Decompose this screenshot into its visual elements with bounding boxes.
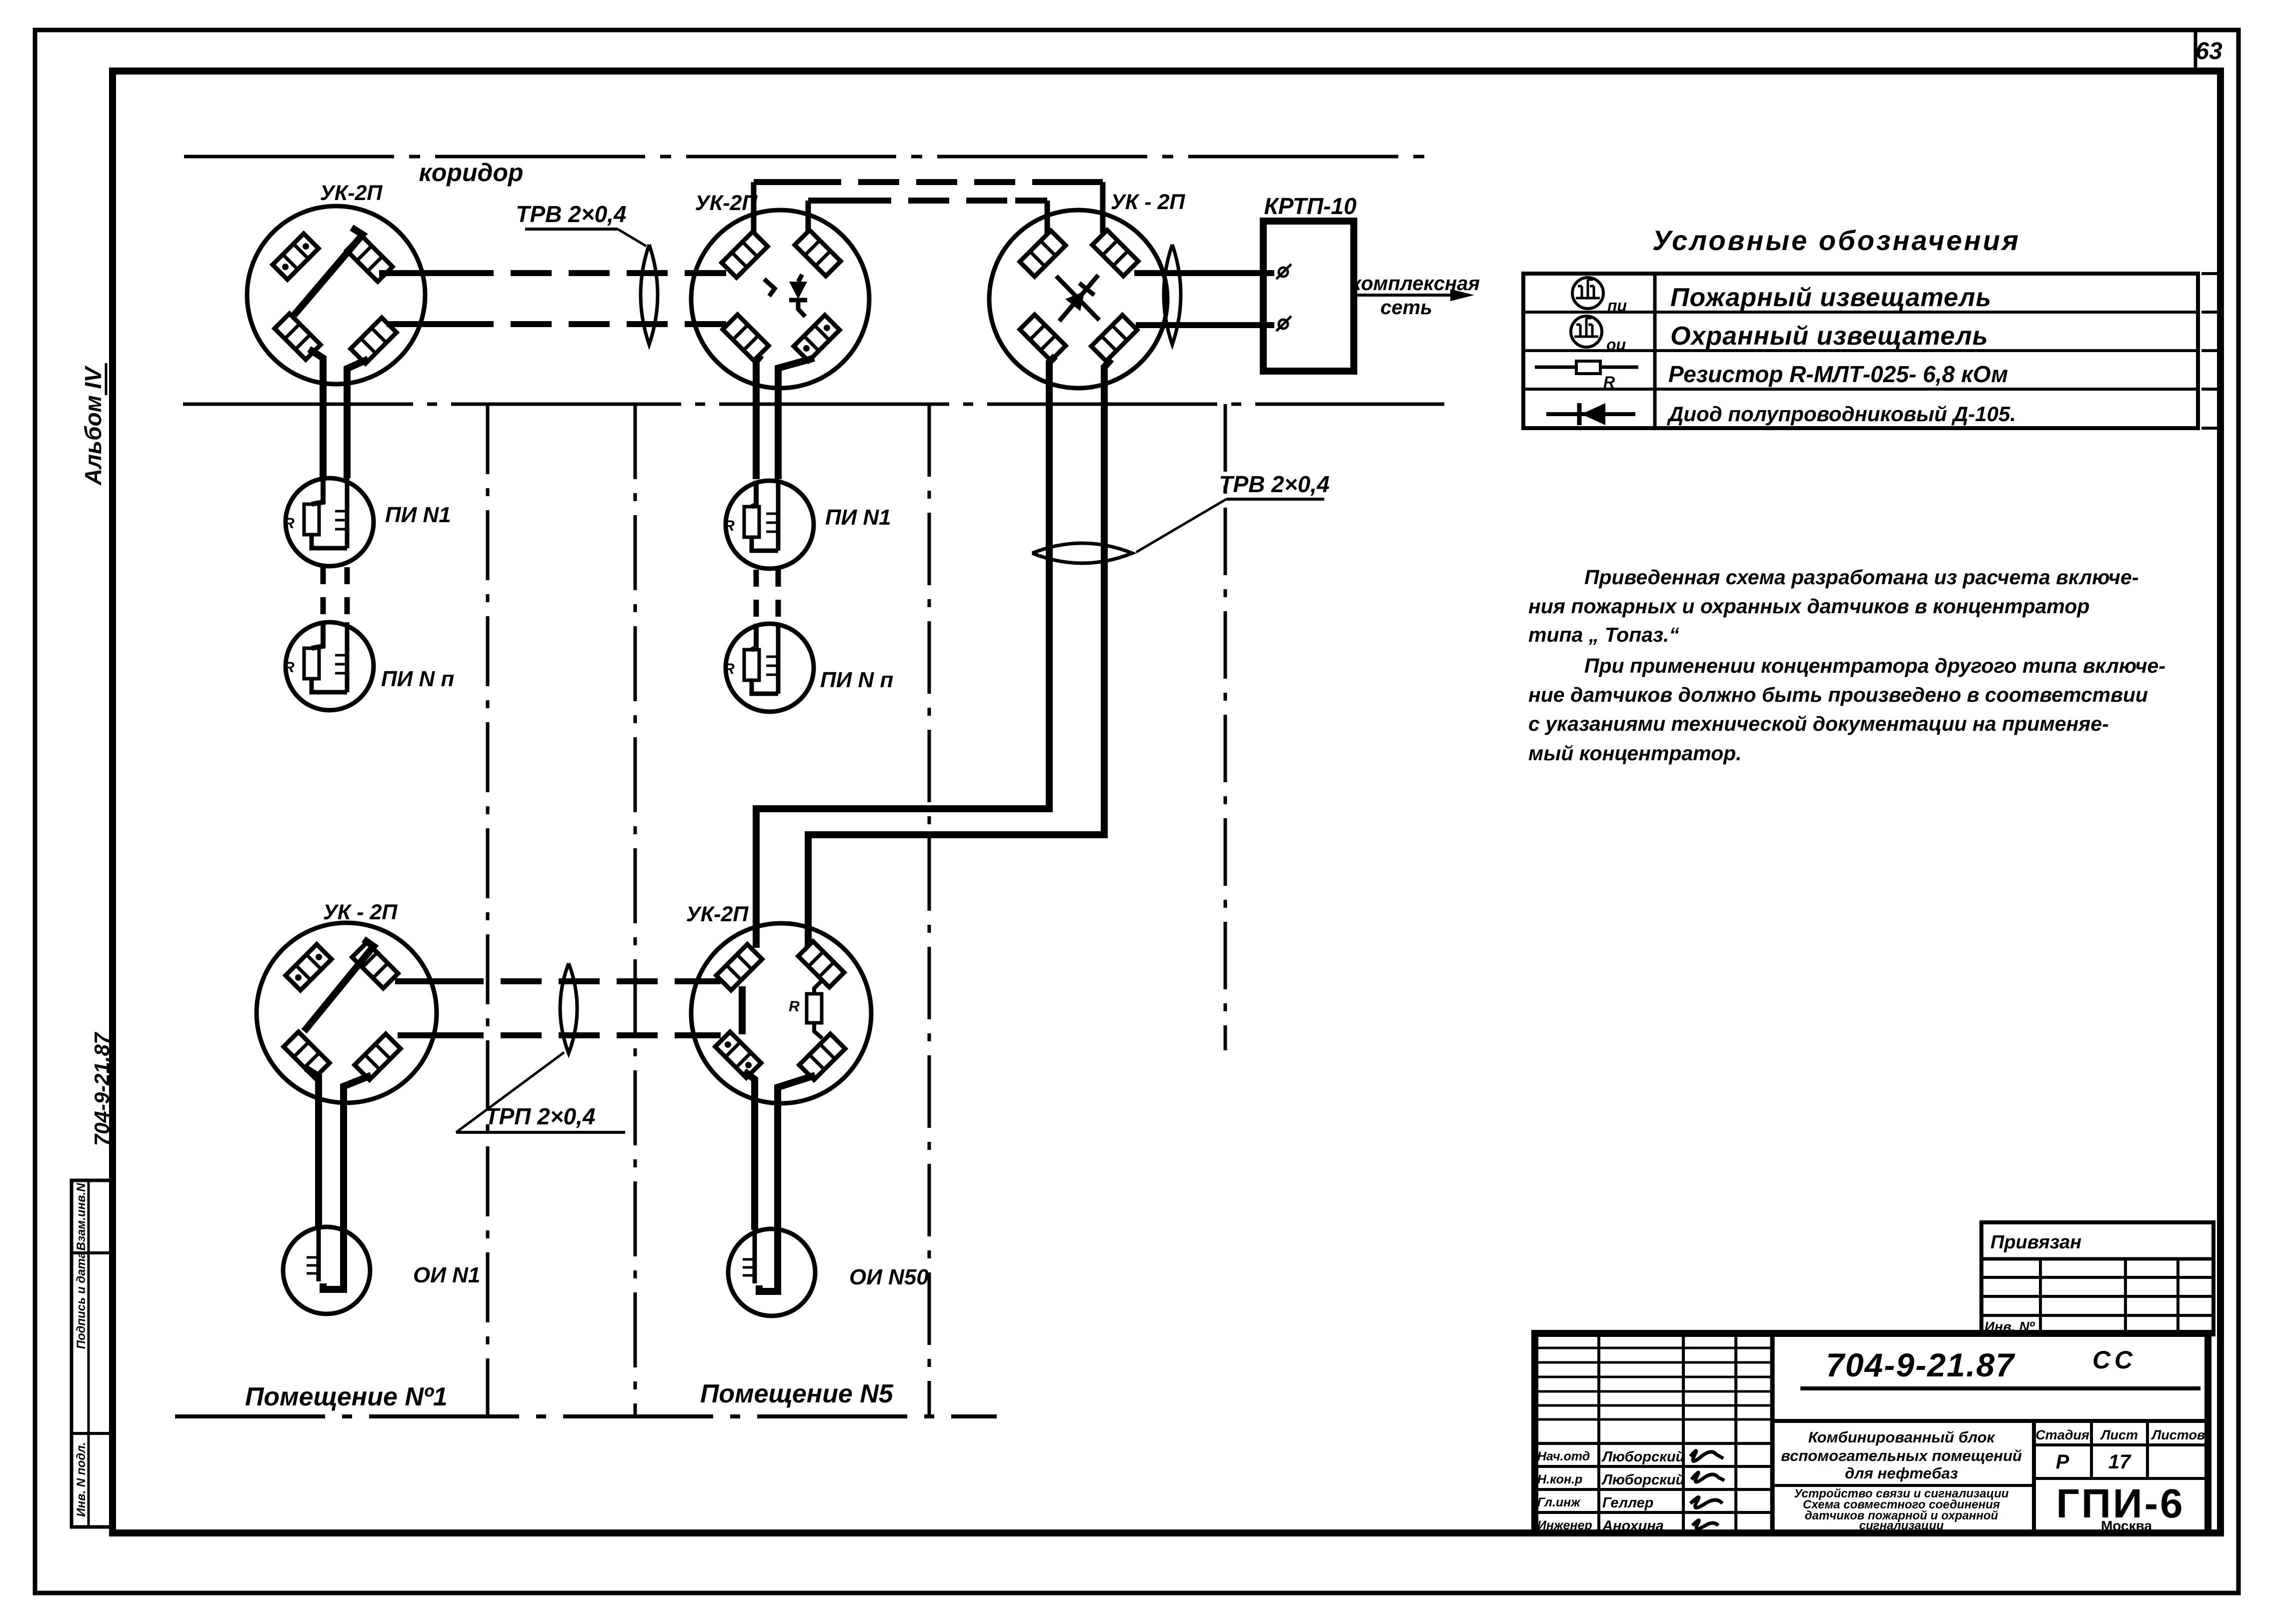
- cable lens marker 4 on riser: [1032, 543, 1132, 563]
- UK-2P no.1 internal jumper wire: [294, 228, 363, 315]
- svg-text:Нач.отд: Нач.отд: [1537, 1449, 1590, 1463]
- svg-text:R: R: [789, 998, 800, 1015]
- legend symbol: diode: [1546, 403, 1635, 425]
- junction box UK-2P no.5: [691, 923, 871, 1103]
- UK-2P no.5 terminal blocks: [715, 941, 845, 1080]
- junction box UK-2P no.2: [691, 210, 869, 388]
- stage sheet columns: [2034, 1421, 2208, 1533]
- dashed pair run UK2 to UK3 lower: [808, 198, 1047, 204]
- svg-text:ПИ N п: ПИ N п: [820, 668, 894, 692]
- wire run UK3 to KRTP lower: [1136, 322, 1274, 328]
- UK-2P no.4 internal jumper wire: [304, 939, 374, 1031]
- junction box UK-2P no.1: [247, 206, 425, 384]
- svg-text:ОИ N50: ОИ N50: [849, 1265, 929, 1289]
- svg-text:Подпись и дата: Подпись и дата: [75, 1252, 88, 1349]
- cable label TRV 2x0.4 no.2: [1136, 471, 1330, 552]
- svg-text:Взам.инв.N: Взам.инв.N: [75, 1183, 88, 1251]
- wire from UK-2P no.1 to PI column right: [347, 359, 368, 478]
- binding table Privyazan: [1981, 1222, 2213, 1334]
- svg-text:типа „ Топаз.“: типа „ Топаз.“: [1528, 623, 1679, 646]
- svg-text:для нефтебаз: для нефтебаз: [1845, 1464, 1958, 1482]
- svg-text:R: R: [724, 518, 735, 534]
- signatures squiggles: [1690, 1450, 1724, 1528]
- room label 1: [245, 1382, 448, 1411]
- svg-text:R: R: [724, 661, 735, 677]
- svg-text:R: R: [284, 659, 295, 676]
- kompleksnaya set leader and label: [1351, 273, 1480, 319]
- svg-text:ПИ N1: ПИ N1: [825, 505, 891, 530]
- svg-text:704-9-21.87: 704-9-21.87: [90, 1032, 114, 1146]
- svg-text:УК - 2П: УК - 2П: [323, 900, 398, 924]
- UK-2P no.2 label: [695, 191, 758, 215]
- cable label TRP 2x0.4: [456, 1052, 625, 1132]
- svg-text:комплексная: комплексная: [1351, 273, 1480, 295]
- junction box UK-2P no.3: [989, 210, 1167, 388]
- svg-text:ния пожарных и охранных д: ния пожарных и охранных датчиков в конце…: [1528, 595, 2089, 618]
- underline of document number row: [1800, 1386, 2200, 1390]
- cable lens marker 2: [1164, 245, 1181, 345]
- svg-text:Р: Р: [2056, 1451, 2069, 1473]
- OI N50 label: [849, 1265, 929, 1289]
- dashed wires between PI detectors left: [323, 567, 347, 621]
- cable label TRV 2x0.4 no.1: [516, 201, 646, 246]
- room partition wall 2: [634, 404, 637, 1416]
- sheet title separator: [1772, 1484, 2034, 1487]
- PI Nn right label: [820, 668, 894, 692]
- internal wire UK-2P no.5 left: [739, 986, 746, 1034]
- riser wire from UK-2P no.3 down left: [756, 356, 1055, 948]
- fire detector PI Nn right: [724, 624, 814, 712]
- wire from UK-2P no.3 up right: [1100, 182, 1106, 233]
- PI Nn left label: [381, 667, 455, 691]
- svg-text:мый концентратор.: мый концентратор.: [1528, 742, 1742, 765]
- svg-text:Охранный извещатель: Охранный извещатель: [1670, 322, 1988, 351]
- diode D-105 inside UK-2P no.2: [764, 275, 807, 317]
- legend text row 1: [1670, 283, 1991, 312]
- PI N1 right label: [825, 505, 891, 530]
- svg-text:Альбом IV: Альбом IV: [80, 366, 106, 486]
- svg-text:Комбинированный блок: Комбинированный блок: [1808, 1428, 1995, 1446]
- legend symbol: fire detector PI: [1572, 278, 1627, 315]
- svg-text:ПИ N1: ПИ N1: [385, 503, 451, 527]
- svg-text:Помещение Nº1: Помещение Nº1: [245, 1382, 448, 1411]
- legend text row 4: [1667, 402, 2016, 426]
- wire from UK-2P no.2 to PI column left: [756, 355, 761, 479]
- junction box UK-2P no.4: [257, 923, 437, 1103]
- wire from UK-2P no.4 to OI N1 right: [344, 1075, 371, 1228]
- page number box 63: [2195, 30, 2222, 71]
- legend symbol: resistor R: [1535, 361, 1638, 391]
- legend title: [1652, 225, 2020, 256]
- svg-text:Инженер: Инженер: [1537, 1518, 1592, 1532]
- OI N1 label: [413, 1263, 480, 1287]
- document number 704-9-21.87: [1826, 1346, 2015, 1383]
- svg-text:Инв. N подл.: Инв. N подл.: [75, 1442, 88, 1516]
- svg-text:17: 17: [2108, 1451, 2131, 1473]
- UK-2P no.1 label: [320, 181, 383, 205]
- svg-text:вспомогательных помещений: вспомогательных помещений: [1781, 1447, 2022, 1464]
- main title block: [1535, 1333, 2208, 1533]
- svg-text:Люборский: Люборский: [1601, 1449, 1685, 1465]
- svg-text:Помещение N5: Помещение N5: [700, 1379, 894, 1408]
- security detector OI N50: [728, 1229, 815, 1316]
- svg-text:ОИ N1: ОИ N1: [413, 1263, 480, 1287]
- dashed wires between PI detectors right: [756, 570, 778, 623]
- svg-text:63: 63: [2195, 38, 2222, 65]
- fire detector PI Nn left: [284, 622, 374, 710]
- room partition wall 4: [1224, 404, 1227, 1050]
- wire from UK-2P no.5 to OI N50 right: [778, 1075, 815, 1230]
- svg-text:R: R: [1603, 373, 1615, 391]
- UK-2P no.1 terminal blocks: [273, 234, 397, 364]
- svg-text:Условные обозначения: Условные обозначения: [1652, 225, 2020, 256]
- wire from UK-2P no.5 to OI N50 left: [744, 1071, 755, 1230]
- svg-text:ПИ N п: ПИ N п: [381, 667, 455, 691]
- svg-text:Приведенная схема разработан: Приведенная схема разработана из расчета…: [1584, 566, 2138, 589]
- svg-text:коридор: коридор: [419, 159, 524, 187]
- svg-text:сигнализации: сигнализации: [1859, 1519, 1944, 1532]
- sheet title: [1794, 1487, 2009, 1532]
- svg-text:При применении концентратора: При применении концентратора другого тип…: [1584, 654, 2165, 677]
- security detector OI N1: [283, 1227, 370, 1314]
- wire from UK-2P no.2 up left: [751, 182, 757, 234]
- svg-text:Геллер: Геллер: [1602, 1495, 1653, 1511]
- UK-2P no.5 label: [686, 902, 749, 926]
- riser wire from UK-2P no.3 down right: [808, 359, 1111, 947]
- room partition wall 3: [928, 404, 931, 1416]
- svg-text:ние датчиков должно быть п: ние датчиков должно быть произведено в с…: [1528, 683, 2148, 706]
- svg-text:Диод полупроводниковый Д-105: Диод полупроводниковый Д-105.: [1667, 402, 2016, 426]
- room partition wall 1: [486, 404, 490, 1416]
- wire from UK-2P no.1 to PI column left: [309, 349, 323, 478]
- svg-text:R: R: [284, 515, 295, 532]
- legend text row 2: [1670, 322, 1988, 351]
- UK-2P no.4 label: [323, 900, 398, 924]
- signature rows text: [1537, 1449, 1685, 1534]
- crossed jumper wires inside UK-2P no.3: [1056, 275, 1099, 321]
- wire from UK-2P no.2 to PI column right: [778, 358, 814, 479]
- rotated margin text: album number: [80, 363, 106, 486]
- legend table grid: [1523, 274, 2219, 428]
- title block middle separator: [1772, 1419, 2208, 1423]
- room bottom boundary line: [175, 1414, 997, 1418]
- institute logo GPI-6 Moscow: [2056, 1481, 2184, 1533]
- wire from UK-2P no.3 up left: [1045, 201, 1050, 235]
- svg-text:Москва: Москва: [2101, 1518, 2152, 1533]
- svg-text:ТРВ 2×0,4: ТРВ 2×0,4: [1219, 471, 1329, 497]
- svg-text:Гл.инж: Гл.инж: [1537, 1495, 1581, 1509]
- stamp CC: [2092, 1346, 2136, 1374]
- room label 5: [700, 1379, 894, 1408]
- corridor lower wall line: [183, 403, 1444, 406]
- UK-2P no.2 terminal blocks: [722, 230, 841, 361]
- terminal box KRTP-10: [1263, 221, 1354, 371]
- svg-text:СС: СС: [2092, 1346, 2136, 1374]
- svg-text:пи: пи: [1607, 297, 1627, 315]
- svg-text:УК-2П: УК-2П: [695, 191, 758, 215]
- svg-text:сеть: сеть: [1380, 297, 1432, 319]
- dashed pair run UK4 to UK5 lower: [398, 1032, 721, 1038]
- wire run UK3 to KRTP upper: [1134, 270, 1274, 276]
- svg-text:ои: ои: [1606, 336, 1626, 354]
- left margin stamp column: [72, 1180, 113, 1527]
- svg-text:Пожарный извещатель: Пожарный извещатель: [1670, 283, 1991, 312]
- svg-text:Резистор R-МЛТ-025- 6,8 кОм: Резистор R-МЛТ-025- 6,8 кОм: [1668, 361, 2008, 387]
- KRTP-10 label: [1264, 193, 1357, 219]
- resistor R inside UK-2P no.5: [789, 981, 822, 1038]
- legend text row 3: [1668, 361, 2008, 387]
- svg-text:с указаниями технической до: с указаниями технической документации на…: [1528, 712, 2109, 735]
- svg-text:Листов: Листов: [2151, 1427, 2205, 1442]
- svg-text:Н.кон.р: Н.кон.р: [1537, 1472, 1582, 1486]
- corridor label: [419, 159, 524, 187]
- svg-text:Люборский: Люборский: [1601, 1472, 1685, 1488]
- project title: [1781, 1428, 2022, 1482]
- svg-text:ТРП 2×0,4: ТРП 2×0,4: [485, 1103, 595, 1129]
- corridor upper wall line: [184, 155, 1434, 159]
- PI N1 left label: [385, 503, 451, 527]
- wire from UK-2P no.2 up right: [806, 201, 811, 233]
- terminal pin lower at KRTP: [1276, 316, 1291, 331]
- svg-text:Анохина: Анохина: [1602, 1518, 1664, 1534]
- UK-2P no.3 terminal blocks: [1020, 230, 1138, 361]
- svg-text:КРТП-10: КРТП-10: [1264, 193, 1357, 219]
- svg-text:704-9-21.87: 704-9-21.87: [1826, 1346, 2015, 1383]
- diode inside UK-2P no.3: [1065, 283, 1094, 311]
- svg-text:Стадия: Стадия: [2035, 1427, 2089, 1442]
- dashed pair run UK4 to UK5 upper: [395, 978, 721, 984]
- wire from UK-2P no.4 to OI N1 left: [306, 1068, 319, 1228]
- fire detector PI N1 left: [284, 478, 374, 566]
- dashed pair run UK1 to UK2 upper: [379, 270, 726, 276]
- svg-text:УК-2П: УК-2П: [686, 902, 749, 926]
- svg-text:УК - 2П: УК - 2П: [1111, 190, 1186, 214]
- UK-2P no.3 label: [1111, 190, 1186, 214]
- dashed pair run UK1 to UK2 lower: [387, 321, 726, 327]
- UK-2P no.4 terminal blocks: [284, 942, 401, 1080]
- cable lens marker 1: [641, 245, 658, 345]
- terminal pin upper at KRTP: [1276, 264, 1291, 279]
- dashed pair run UK2 to UK3 upper: [754, 179, 1103, 185]
- NOTES PARAGRAPH: [1528, 566, 2165, 765]
- cable lens marker 3: [560, 963, 577, 1053]
- svg-text:УК-2П: УК-2П: [320, 181, 383, 205]
- rotated margin text: document number 704-9-21.87: [90, 1032, 114, 1146]
- svg-text:Лист: Лист: [2100, 1427, 2138, 1442]
- svg-text:ТРВ 2×0,4: ТРВ 2×0,4: [516, 201, 626, 227]
- fire detector PI N1 right: [724, 481, 814, 569]
- svg-text:Привязан: Привязан: [1990, 1232, 2081, 1253]
- legend symbol: security detector OI: [1571, 316, 1626, 354]
